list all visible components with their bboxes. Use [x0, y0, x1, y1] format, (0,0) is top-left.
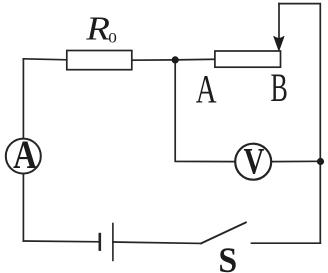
wire left vertical: top corner down to bottom-left corner [22, 59, 24, 241]
battery negative plate (short thick) [99, 233, 102, 251]
switch S blade (open) [201, 222, 246, 243]
node junction dot (right vertical at voltmeter wire) [317, 158, 324, 165]
svg-text:0: 0 [108, 31, 117, 47]
wire voltmeter right side to right vertical wire [272, 160, 321, 162]
resistor R0 (box symbol) [67, 51, 132, 70]
battery positive plate (long thin) [112, 223, 114, 262]
wire top-right: arrow top across and down right side to bottom-right corner [279, 4, 320, 244]
wiper arrowhead pointing down into terminal B [274, 36, 284, 50]
svg-text:A: A [196, 67, 217, 112]
svg-text:B: B [271, 67, 288, 111]
wire junction to rheostat left terminal A [175, 58, 215, 61]
node junction dot (left, top of voltmeter branch) [172, 56, 179, 63]
svg-text:A: A [13, 132, 37, 177]
svg-text:R: R [85, 10, 110, 47]
svg-text:V: V [244, 142, 265, 182]
label R0 [85, 10, 117, 47]
wire wiper arrow shaft from top wire down to arrowhead [278, 4, 280, 44]
voltmeter V (circle symbol) [235, 142, 271, 182]
rheostat AB (resistance box symbol) [215, 51, 281, 67]
wire bottom-left: corner to battery negative plate [23, 240, 99, 243]
wire bottom-right: switch right contact to bottom-right corner [252, 242, 321, 244]
wire battery positive plate to switch left contact [113, 242, 201, 243]
wire voltmeter branch: junction down then right to voltmeter [175, 60, 235, 162]
wire R0 right terminal to junction node [132, 59, 175, 61]
ammeter A (circle symbol) [6, 132, 41, 177]
wire top-left: corner to R0 left terminal [23, 59, 66, 60]
svg-text:S: S [218, 240, 237, 273]
